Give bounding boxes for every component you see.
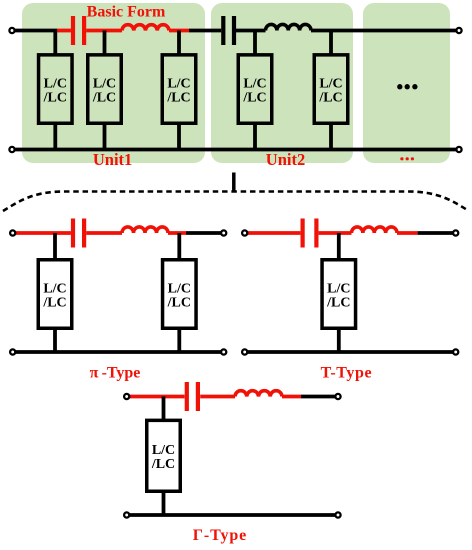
svg-text:L/C: L/C [43, 281, 66, 296]
svg-text:L/C: L/C [93, 76, 116, 91]
svg-text:L/C: L/C [243, 76, 266, 91]
svg-text:/LC: /LC [167, 295, 191, 310]
svg-text:L/C: L/C [167, 76, 190, 91]
svg-text:Γ-Type: Γ-Type [193, 527, 247, 544]
svg-text:/LC: /LC [318, 90, 342, 105]
svg-text:L/C: L/C [44, 76, 67, 91]
svg-text:L/C: L/C [168, 281, 191, 296]
svg-text:/LC: /LC [326, 295, 350, 310]
svg-text:L/C: L/C [152, 443, 175, 458]
svg-text:π -Type: π -Type [90, 364, 141, 381]
svg-text:/LC: /LC [151, 457, 175, 472]
svg-text:L/C: L/C [319, 76, 342, 91]
svg-text:/LC: /LC [43, 90, 67, 105]
svg-text:Unit1: Unit1 [93, 150, 132, 169]
svg-text:/LC: /LC [242, 90, 266, 105]
svg-text:L/C: L/C [327, 281, 350, 296]
svg-text:Unit2: Unit2 [266, 150, 305, 169]
svg-text:/LC: /LC [92, 90, 116, 105]
svg-text:/LC: /LC [166, 90, 190, 105]
svg-text:/LC: /LC [42, 295, 66, 310]
svg-text:Basic Form: Basic Form [87, 3, 166, 20]
svg-text:T-Type: T-Type [321, 364, 373, 381]
